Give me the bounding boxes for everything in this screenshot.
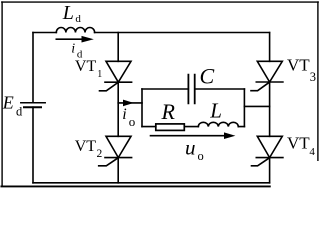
thyristor VT2 [99,136,132,166]
wire: load box left edge [141,89,143,127]
svg-text:VT: VT [75,58,97,75]
svg-text:i: i [122,106,126,123]
wire: top bus [33,32,270,34]
svg-text:i: i [71,41,75,56]
arrow uo [151,132,236,139]
wire: load box bottom branch [142,126,244,128]
wire: load input with arrow io [118,100,142,107]
svg-text:o: o [198,149,204,163]
thyristor VT4 [252,136,283,166]
svg-text:1: 1 [97,69,102,80]
svg-text:R: R [161,99,176,124]
inductor Ld [56,28,94,33]
label L [209,99,222,123]
label VT2 [75,138,103,160]
wire: left bus [32,33,34,183]
svg-text:d: d [75,13,81,25]
svg-text:VT: VT [287,134,310,153]
label VT1 [75,58,102,80]
label io [122,106,135,129]
svg-text:L: L [209,99,222,123]
thyristor VT1 [100,61,132,91]
wire: load box right edge [243,89,245,127]
capacitor C [188,75,194,104]
label C [200,64,215,89]
wire: bottom bus [33,182,270,184]
label VT3 [287,56,316,84]
svg-text:C: C [200,64,215,89]
inductor L [198,122,238,126]
svg-text:u: u [185,136,196,160]
label R [161,99,176,124]
svg-text:d: d [16,105,23,119]
battery Ed [21,103,45,108]
svg-text:L: L [62,2,74,24]
label Ld [62,2,82,25]
label Ed [2,92,23,118]
svg-text:3: 3 [310,70,316,84]
wire: load box top branch [142,88,244,90]
svg-text:o: o [129,114,136,129]
svg-text:VT: VT [75,138,97,155]
wire: load output to right leg [244,105,269,107]
svg-text:4: 4 [309,146,315,158]
arrow id [56,36,94,43]
svg-text:VT: VT [287,56,310,75]
label id [71,41,83,60]
label uo [185,136,204,164]
resistor R [156,124,185,130]
thyristor VT3 [251,61,283,90]
svg-text:E: E [2,92,14,112]
svg-text:2: 2 [97,148,103,160]
wire: left bridge leg [117,33,119,183]
wire: right bridge leg [269,33,271,183]
label VT4 [287,134,315,158]
